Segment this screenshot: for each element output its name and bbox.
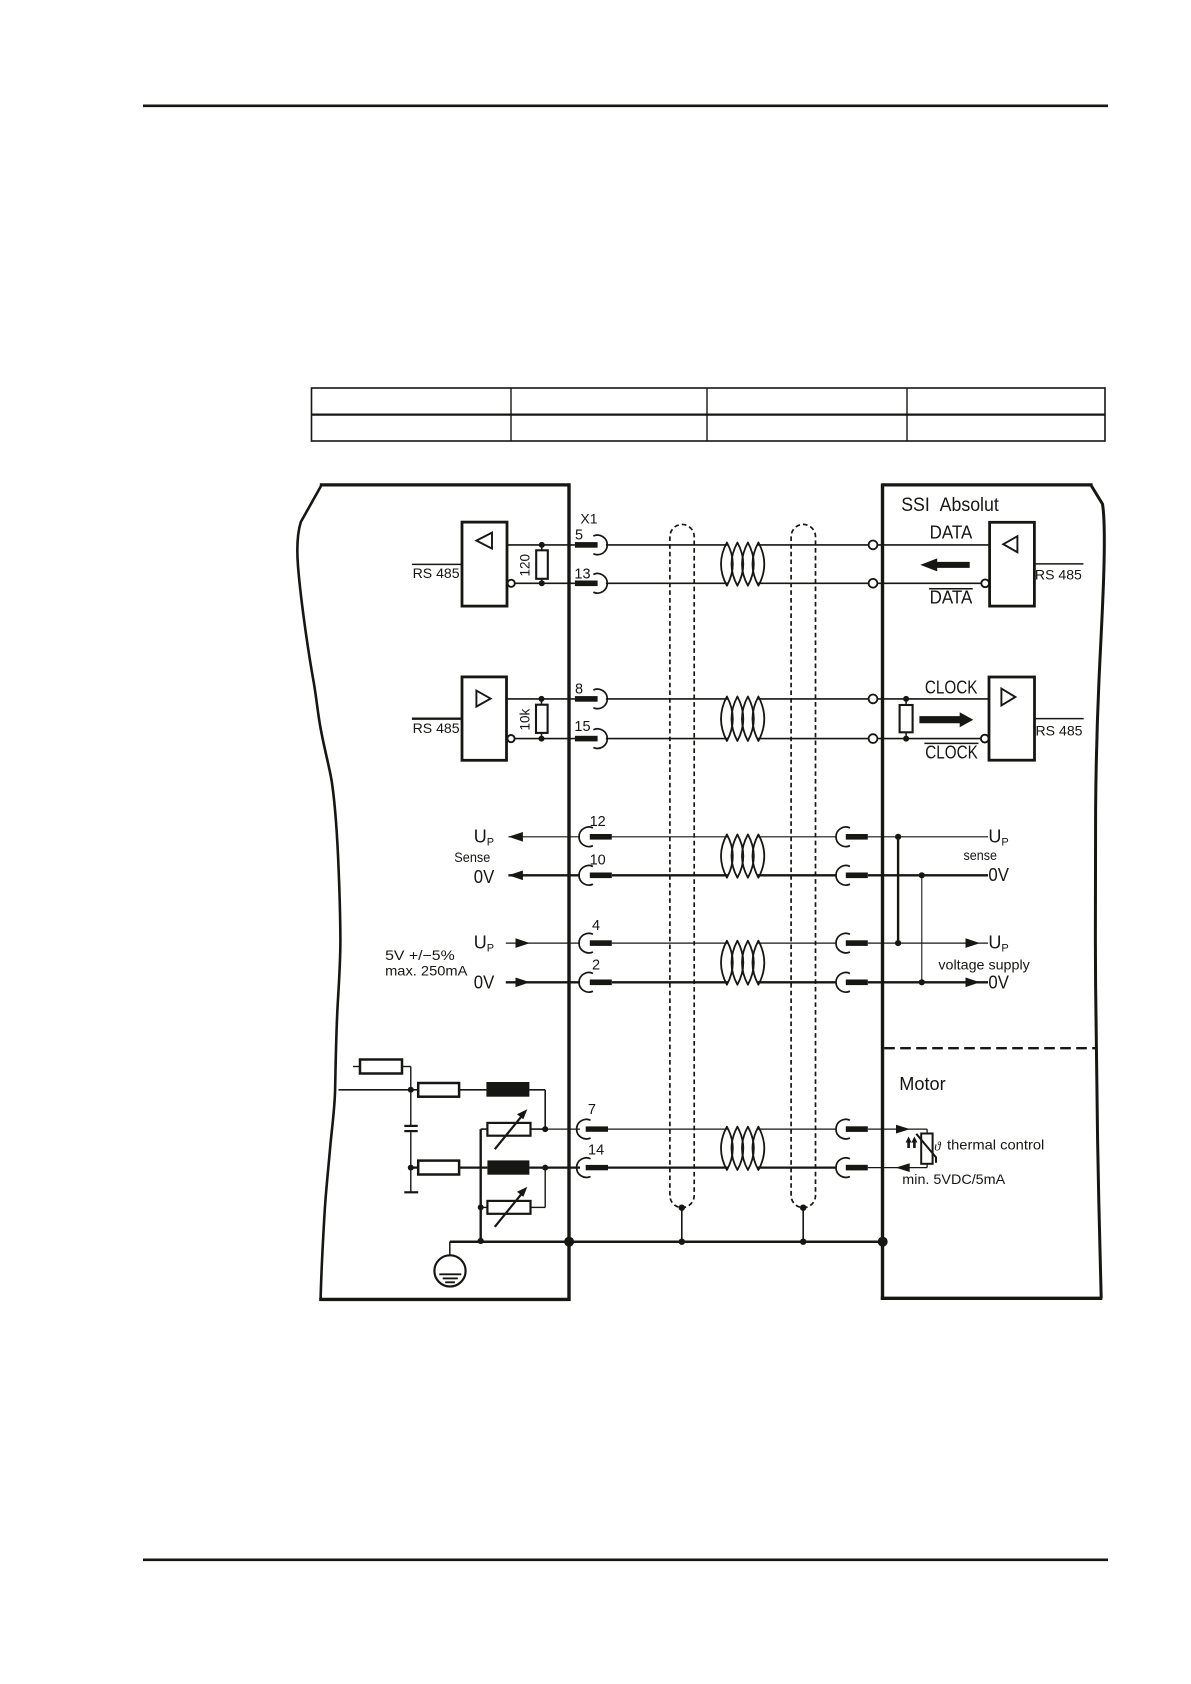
svg-text:SSI Absolut: SSI Absolut xyxy=(901,495,999,516)
encoder termination bottom junction xyxy=(903,736,909,742)
svg-text:4: 4 xyxy=(592,918,600,934)
wire RV2 riser xyxy=(544,1168,546,1208)
wire R1 right lead xyxy=(402,1066,411,1068)
wire 0V supply cable xyxy=(612,981,728,983)
op-amp U3 RS485 receiver (DATA) xyxy=(990,522,1035,606)
wire RV left vertical xyxy=(480,1129,482,1242)
svg-text:13: 13 xyxy=(574,566,590,582)
svg-text:Sense: Sense xyxy=(454,849,490,865)
svg-text:2: 2 xyxy=(592,957,600,973)
node L bus shield 1 tap xyxy=(679,1239,685,1245)
wire UP sense cable right xyxy=(758,836,836,838)
encoder terminal thermal+ xyxy=(836,1119,868,1139)
wire cap top lead xyxy=(410,1090,412,1126)
twisted pair sense cable xyxy=(721,834,764,877)
drive enclosure bottom edge xyxy=(319,1298,570,1301)
wire thermal- cable xyxy=(608,1166,728,1168)
wire node F to pin 7 xyxy=(545,1128,580,1130)
svg-text:X1: X1 xyxy=(580,511,597,527)
twisted pair thermal cable xyxy=(721,1127,764,1170)
thermistor RT1 (motor PTC) xyxy=(921,1134,932,1164)
wire DATA+ cable xyxy=(606,544,728,546)
wire R1 left stub xyxy=(353,1066,360,1068)
node K bus big dot at drive edge xyxy=(564,1237,574,1247)
shield 1 drain junction xyxy=(679,1205,685,1211)
wire DATA- into encoder xyxy=(877,582,981,584)
wire UP sense inside encoder xyxy=(868,836,988,838)
wire CLOCK+ into encoder xyxy=(877,698,989,700)
wire thermal+ cable right xyxy=(758,1128,836,1130)
encoder terminal 0V supply xyxy=(836,972,868,992)
wire RV1 right lead xyxy=(531,1128,546,1130)
svg-text:voltage supply: voltage supply xyxy=(938,957,1029,973)
arrow 0V sense (points left) xyxy=(508,871,523,881)
op-amp U2 RS485 driver (CLOCK) xyxy=(462,677,507,760)
wire CLOCK- into encoder xyxy=(877,738,981,740)
arrow 0V supply right (points right) xyxy=(966,978,981,988)
twisted pair CLOCK cable xyxy=(721,697,764,742)
svg-text:sense: sense xyxy=(964,847,998,863)
U2 inverting output bubble xyxy=(507,735,514,742)
CLOCK+ encoder terminal circle xyxy=(869,695,878,704)
footer rule xyxy=(143,1559,1108,1562)
wire UP sense cable xyxy=(612,836,728,838)
node N bus big dot at encoder edge xyxy=(878,1237,888,1247)
svg-text:5V +/−5%: 5V +/−5% xyxy=(385,947,455,963)
wire 120 bottom stub xyxy=(541,579,543,584)
overline of CLOCK (bottom label) xyxy=(924,742,978,744)
svg-text:RS 485: RS 485 xyxy=(413,566,460,581)
drive enclosure outline (servo amplifier) xyxy=(297,486,340,1299)
wire R1 down to node E xyxy=(410,1067,412,1090)
encoder enclosure bottom edge xyxy=(881,1297,1103,1300)
encoder terminal thermal- xyxy=(836,1158,868,1178)
wire CLOCK- cable right xyxy=(758,738,873,740)
cable shield 2 (dashed capsule) xyxy=(791,524,815,1207)
svg-text:7: 7 xyxy=(588,1102,596,1118)
wire bus down to PE xyxy=(449,1242,451,1275)
wire 10k top stub xyxy=(541,699,543,705)
wire UP supply cable xyxy=(612,942,728,944)
wire RV1 left lead xyxy=(481,1128,488,1130)
encoder termination top junction xyxy=(903,696,909,702)
node I junction (RV2 left) xyxy=(478,1204,484,1210)
twisted pair supply cable xyxy=(721,941,764,985)
wire DATA+ into encoder xyxy=(877,544,989,546)
wire 0V sense to drive xyxy=(508,874,580,876)
svg-text:DATA: DATA xyxy=(930,523,973,543)
wire DATA- cable right xyxy=(758,582,873,584)
encoder enclosure right jagged edge xyxy=(1092,486,1105,1298)
svg-text:Motor: Motor xyxy=(899,1074,945,1094)
arrow UP sense (points left) xyxy=(508,832,523,842)
varistor RV1 xyxy=(487,1123,530,1136)
encoder enclosure left edge xyxy=(881,483,884,1300)
encoder terminal UP sense xyxy=(836,827,868,847)
drive enclosure top edge xyxy=(320,483,571,486)
pin 7 socket contact xyxy=(577,1119,608,1139)
U3 triangle (points left) xyxy=(1003,536,1017,552)
wire 0V supply cable right xyxy=(758,981,836,983)
svg-text:8: 8 xyxy=(575,681,583,697)
wire RT1 top lead xyxy=(926,1129,928,1133)
DATA+ encoder terminal circle xyxy=(869,541,878,550)
wire 0V sense cable xyxy=(612,874,728,876)
table frame xyxy=(312,388,1106,441)
U3 inverting input bubble xyxy=(981,579,989,587)
svg-text:UP: UP xyxy=(474,933,494,955)
capacitor C1 plates xyxy=(404,1126,417,1131)
U4 triangle (points right) xyxy=(1001,689,1015,706)
svg-text:CLOCK: CLOCK xyxy=(925,678,978,698)
pin 12 socket contact xyxy=(579,827,612,847)
svg-text:120: 120 xyxy=(518,554,533,577)
wire 0V supply from drive xyxy=(506,981,580,983)
encoder terminal 0V sense xyxy=(836,865,868,885)
overline of DATA (bottom label) xyxy=(929,588,973,590)
node G junction (cap/row3) xyxy=(408,1165,414,1171)
chassis terminal bar xyxy=(404,1191,418,1193)
svg-text:15: 15 xyxy=(574,719,590,735)
svg-text:RS 485: RS 485 xyxy=(413,721,460,736)
svg-text:UP: UP xyxy=(988,933,1008,955)
twisted pair DATA cable xyxy=(721,543,764,586)
RV2 arrowhead xyxy=(517,1187,527,1197)
node D junction (10k bottom) xyxy=(539,736,545,742)
wire RV2 left lead xyxy=(481,1206,488,1208)
pin 14 socket contact xyxy=(577,1158,608,1178)
wire UP supply cable right xyxy=(758,942,836,944)
wire CLOCK- cable xyxy=(606,738,728,740)
wire termination top stub xyxy=(905,699,907,705)
pin 8 socket contact xyxy=(575,689,607,709)
svg-text:0V: 0V xyxy=(474,867,495,887)
wire U3 output (overline RS 485 right) xyxy=(1034,563,1083,565)
wire thermal+ cable xyxy=(608,1128,728,1130)
wire shield 2 drain xyxy=(802,1208,804,1242)
cable shield 1 (dashed capsule) xyxy=(670,524,694,1207)
resistor R3 (row3) xyxy=(418,1161,459,1175)
wire UP sense-supply link xyxy=(897,837,899,943)
op-amp U1 RS485 driver (DATA) xyxy=(462,522,507,606)
wire thermal- cable right xyxy=(758,1166,836,1168)
RV2 adjustment arrow xyxy=(495,1192,524,1227)
signal direction arrow CLOCK (points right) xyxy=(919,712,973,727)
node E junction (row2/cap) xyxy=(408,1087,414,1093)
varistor RV2 xyxy=(487,1201,530,1214)
svg-text:UP: UP xyxy=(988,826,1008,848)
temperature arrows symbol xyxy=(906,1137,918,1149)
svg-text:thermal control: thermal control xyxy=(947,1137,1044,1153)
RV1 adjustment arrow xyxy=(495,1114,524,1149)
svg-text:RS 485: RS 485 xyxy=(1036,723,1083,738)
pin 13 socket contact xyxy=(575,574,607,594)
RT1 thermistor stroke xyxy=(916,1134,936,1163)
encoder terminal UP supply xyxy=(836,933,868,953)
wire DATA- cable xyxy=(606,582,728,584)
svg-text:5: 5 xyxy=(575,527,583,543)
resistor R1 (snubber top) xyxy=(360,1060,402,1074)
svg-text:ϑ: ϑ xyxy=(934,1139,941,1154)
inductor L2 ferrite (filled) xyxy=(487,1160,529,1174)
pin 5 socket contact xyxy=(575,535,607,555)
pin 2 socket contact xyxy=(579,972,612,992)
wire 0V sense cable right xyxy=(758,874,836,876)
svg-text:10k: 10k xyxy=(518,708,533,730)
RV1 arrowhead xyxy=(517,1109,527,1119)
svg-text:RS 485: RS 485 xyxy=(1035,568,1082,583)
node 0V supply junction xyxy=(919,979,925,985)
resistor 10k pullup xyxy=(536,705,548,733)
wire UP supply inside encoder xyxy=(868,942,988,944)
svg-text:0V: 0V xyxy=(988,865,1009,885)
wire thermal+ to RT1 xyxy=(868,1128,927,1130)
signal direction arrow DATA (points left) xyxy=(920,558,969,571)
node F junction (RV1/pin7) xyxy=(542,1126,548,1132)
wire termination bottom stub xyxy=(905,732,907,738)
node H junction (row3/RV2) xyxy=(542,1165,548,1171)
node C junction (10k top) xyxy=(539,696,545,702)
wire U2 inverted output to node D xyxy=(515,738,575,740)
wire RS485 input to U2 (overline RS 485) xyxy=(412,718,462,720)
wire row3 node G to R3 xyxy=(411,1166,418,1168)
svg-text:max. 250mA: max. 250mA xyxy=(385,962,468,978)
DATA- encoder terminal circle xyxy=(869,579,878,588)
wire RT1 bottom lead xyxy=(926,1164,928,1168)
motor section dashed separator xyxy=(884,1047,1097,1049)
wire row2 from enclosure edge xyxy=(339,1089,419,1091)
node A junction (120 top) xyxy=(539,542,545,548)
arrow UP supply right (points right) xyxy=(966,938,981,948)
wire L2 to node H xyxy=(529,1166,545,1168)
wire thermal- from RT1 xyxy=(868,1167,927,1169)
svg-text:min. 5VDC/5mA: min. 5VDC/5mA xyxy=(902,1171,1006,1187)
wire 0V sense-supply link xyxy=(921,875,923,982)
resistor 120 termination xyxy=(536,550,548,579)
node M bus shield 2 tap xyxy=(800,1239,806,1245)
wire DATA+ cable right xyxy=(758,544,873,546)
arrow 0V supply (points right) xyxy=(516,978,531,988)
U4 inverting input bubble xyxy=(981,735,989,743)
wire shield 1 drain xyxy=(681,1208,683,1242)
svg-text:CLOCK: CLOCK xyxy=(925,742,978,762)
wire UP supply from drive xyxy=(506,942,580,944)
svg-text:DATA: DATA xyxy=(930,588,973,608)
wire 10k bottom stub xyxy=(541,733,543,739)
inductor L1 ferrite (filled) xyxy=(486,1082,529,1097)
svg-text:0V: 0V xyxy=(474,973,495,993)
drive enclosure right edge (X1 connector plane) xyxy=(567,483,570,1301)
wire corner down to node F xyxy=(544,1090,546,1129)
pin 10 socket contact xyxy=(579,865,612,885)
wire cap bottom lead xyxy=(410,1131,412,1192)
wire 120 top stub xyxy=(541,545,543,550)
wire U2 output to node C xyxy=(507,698,575,700)
U2 triangle (points right) xyxy=(476,691,490,707)
wire RS485 input to U1 (overline RS 485) xyxy=(412,563,462,565)
resistor R2 (row2) xyxy=(418,1083,459,1097)
wire node H to pin 14 xyxy=(545,1166,580,1168)
wire RV2 right lead xyxy=(531,1206,546,1208)
wire U1 inverted output to node B xyxy=(515,582,575,584)
U1 triangle (points left) xyxy=(476,533,492,549)
wire CLOCK+ cable right xyxy=(758,698,873,700)
node UP supply junction xyxy=(895,940,901,946)
node J bus/RV vertical xyxy=(478,1238,484,1244)
node B junction (120 bottom) xyxy=(539,580,545,586)
wire L1 to corner xyxy=(529,1089,545,1091)
arrow thermal+ (points right) xyxy=(896,1125,910,1134)
protective earth bars xyxy=(439,1274,461,1282)
ground bus wire xyxy=(450,1240,883,1243)
wire U4 output (overline RS 485 right) xyxy=(1035,718,1084,720)
wire U1 output to node A xyxy=(507,544,575,546)
wire 0V supply inside encoder xyxy=(868,981,988,983)
encoder enclosure top edge xyxy=(883,483,1093,486)
svg-text:0V: 0V xyxy=(988,972,1009,992)
CLOCK- encoder terminal circle xyxy=(869,734,878,743)
wire R2 to L1 xyxy=(459,1089,486,1091)
svg-text:14: 14 xyxy=(588,1142,604,1158)
node UP sense junction xyxy=(895,834,901,840)
op-amp U4 RS485 receiver (CLOCK) xyxy=(989,677,1035,760)
pin 4 socket contact xyxy=(579,933,612,953)
svg-text:UP: UP xyxy=(474,826,494,848)
node 0V sense junction xyxy=(919,872,925,878)
wire R3 to L2 xyxy=(459,1166,487,1168)
arrow UP supply (points right) xyxy=(516,938,531,948)
shield 2 drain junction xyxy=(800,1205,806,1211)
protective earth symbol circle xyxy=(434,1255,465,1286)
header rule xyxy=(143,105,1108,108)
arrow thermal- (points left) xyxy=(896,1163,910,1172)
pin 15 socket contact xyxy=(575,729,607,749)
wire CLOCK+ cable xyxy=(606,698,728,700)
wire 0V sense inside encoder xyxy=(868,874,988,876)
U1 inverting output bubble xyxy=(508,580,515,587)
resistor termination (encoder CLOCK) xyxy=(900,705,913,732)
wire UP sense to drive xyxy=(508,836,580,838)
